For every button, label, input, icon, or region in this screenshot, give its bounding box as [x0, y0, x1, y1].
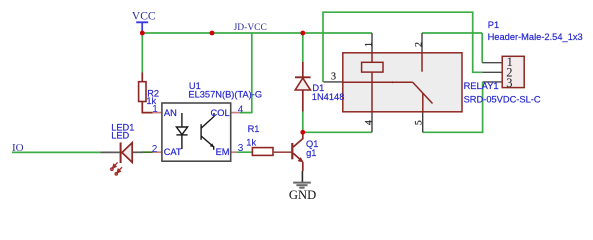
VCC power symbol — [136, 22, 148, 31]
svg-text:3: 3 — [506, 76, 512, 90]
wire relay pin5 to P1 pin3 — [423, 82, 483, 132]
wire JD-VCC down to D1 cathode — [302, 33, 304, 62]
svg-text:AN: AN — [164, 108, 177, 118]
junction dot VCC/R2 — [140, 31, 145, 36]
header P1 body — [502, 56, 524, 87]
relay pin3 internal line — [343, 81, 413, 83]
svg-text:1N4148: 1N4148 — [312, 92, 345, 102]
LED1 cathode bar — [120, 143, 122, 164]
relay armature — [413, 82, 433, 103]
transistor Q1 emitter arrowhead — [298, 157, 304, 162]
junction dot Q1 collector node — [300, 130, 305, 135]
svg-text:IO: IO — [12, 142, 24, 154]
transistor Q1 base bar — [291, 143, 293, 159]
diode D1 cathode bar — [295, 76, 311, 78]
U1 pin2 stub (salmon) — [153, 151, 162, 153]
optocoupler U1 body — [162, 103, 231, 161]
U1 pin1 stub (salmon) — [153, 112, 162, 114]
svg-text:2: 2 — [152, 144, 158, 155]
wire P1 pin1 drop — [481, 33, 483, 63]
svg-text:Header-Male-2.54_1x3: Header-Male-2.54_1x3 — [488, 32, 583, 42]
svg-text:RELAY1: RELAY1 — [464, 81, 499, 91]
ground symbol — [293, 183, 311, 188]
junction dot JD-VCC/D1 — [300, 31, 305, 36]
relay pin2 internal line — [421, 53, 423, 72]
svg-text:SRD-05VDC-SL-C: SRD-05VDC-SL-C — [464, 94, 541, 104]
svg-text:P1: P1 — [488, 20, 499, 30]
wire top line (relay pin3 riser to P1 pin2 drop) — [323, 12, 482, 82]
relay pin 2 stub — [421, 33, 423, 53]
GND lead — [301, 171, 303, 182]
transistor Q1 emitter lead down — [302, 162, 304, 171]
relay coil lead bottom — [371, 72, 373, 112]
U1 pin4 stub (salmon) — [231, 112, 240, 114]
relay pin 3 stub — [324, 81, 343, 83]
relay armature pivot nub — [392, 81, 394, 83]
relay pin 5 stub — [422, 112, 424, 133]
svg-text:2: 2 — [413, 42, 424, 47]
P1 pin 1 stub — [482, 62, 503, 64]
svg-text:VCC: VCC — [132, 10, 156, 22]
diode D1 triangle — [295, 78, 310, 90]
junction dot VCC/JD-VCC — [210, 31, 215, 36]
U1 emitter arrowhead — [210, 143, 214, 147]
P1 pin 3 stub — [483, 81, 503, 83]
P1 pin 2 stub — [482, 71, 503, 73]
wire VCC down to R2 — [141, 33, 143, 73]
svg-text:1: 1 — [363, 42, 374, 47]
diode D1 bottom lead — [302, 90, 304, 112]
transistor Q1 collector — [293, 132, 303, 147]
svg-text:EM: EM — [216, 147, 230, 157]
svg-text:1: 1 — [152, 104, 158, 115]
LED1 emission arrow 1 — [111, 162, 118, 170]
resistor R1 body — [252, 148, 273, 156]
svg-text:EL357N(B)(TA)-G: EL357N(B)(TA)-G — [188, 89, 262, 99]
svg-text:R1: R1 — [248, 124, 260, 134]
diode D1 top lead — [302, 62, 304, 77]
svg-text:4: 4 — [238, 104, 244, 115]
resistor R1 left lead — [252, 151, 254, 153]
LED1 emission arrow 2 — [115, 167, 122, 175]
wire D1 anode down to Q1 collector node — [302, 112, 304, 133]
wire JD-VCC rail right segment (relay pin 2 to P1 pin 1 drop) — [422, 32, 482, 34]
relay pin 4 stub — [371, 112, 373, 133]
wire Q1 collector to relay pin 4 — [303, 131, 372, 133]
svg-text:3: 3 — [238, 143, 244, 154]
svg-text:g1: g1 — [306, 148, 316, 158]
wire IO to LED1 — [12, 151, 101, 153]
LED1 cathode-side lead (gray) — [133, 151, 143, 153]
resistor R2 bottom lead to U1 pin1 — [142, 102, 152, 113]
wire LED1 to U1 pin2 — [142, 151, 153, 153]
transistor Q1 emitter — [293, 153, 302, 161]
U1 internal diode — [176, 113, 187, 149]
svg-text:1k: 1k — [246, 138, 256, 148]
U1 pin3 stub (salmon) — [231, 151, 237, 153]
resistor R2 top lead — [141, 73, 143, 82]
U1 internal phototransistor — [201, 113, 214, 150]
svg-text:JD-VCC: JD-VCC — [234, 23, 267, 33]
relay RELAY1 body — [343, 53, 462, 112]
svg-text:4: 4 — [363, 120, 374, 125]
LED1 triangle — [122, 143, 132, 163]
relay pin5 internal line — [422, 93, 424, 111]
LED1 anode lead (gray) — [101, 151, 120, 153]
relay coil lead top — [371, 53, 373, 63]
wire VCC rail (y=33 from VCC to relay pin 1) — [142, 32, 372, 34]
wire U1 pin4 to JD-VCC rail — [240, 33, 252, 113]
relay coil box — [362, 62, 383, 72]
svg-text:LED: LED — [111, 131, 129, 141]
svg-text:3: 3 — [331, 71, 336, 82]
svg-text:GND: GND — [289, 188, 316, 202]
svg-text:CAT: CAT — [164, 147, 182, 157]
relay pin 1 stub — [371, 33, 373, 53]
wire U1 pin3 to R1 — [237, 151, 253, 153]
resistor R1 right lead to Q1 base — [273, 151, 291, 153]
resistor R2 body — [139, 82, 146, 102]
svg-text:COL: COL — [211, 108, 230, 118]
svg-text:5: 5 — [413, 120, 424, 125]
